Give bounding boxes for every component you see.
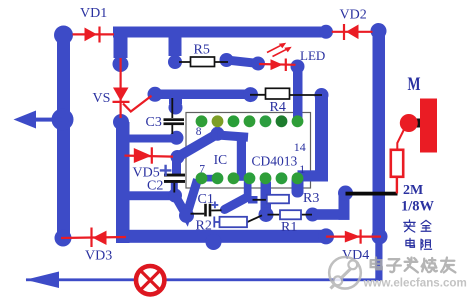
svg-text:R4: R4 <box>270 100 286 115</box>
svg-text:R1: R1 <box>281 220 297 235</box>
svg-text:R5: R5 <box>194 43 210 58</box>
svg-text:www.elecfans.com: www.elecfans.com <box>363 277 467 290</box>
svg-text:M: M <box>408 74 421 95</box>
svg-text:R2: R2 <box>196 219 212 234</box>
svg-text:7: 7 <box>199 163 205 175</box>
svg-text:R3: R3 <box>303 191 319 206</box>
svg-text:C3: C3 <box>146 115 162 130</box>
svg-text:C1: C1 <box>198 192 214 207</box>
svg-text:8: 8 <box>196 126 202 138</box>
svg-text:LED: LED <box>300 48 325 63</box>
svg-text:VD1: VD1 <box>80 6 107 21</box>
svg-text:2M: 2M <box>403 183 423 198</box>
svg-text:CD4013: CD4013 <box>252 153 298 168</box>
svg-text:VD2: VD2 <box>340 8 367 23</box>
svg-text:14: 14 <box>294 140 306 154</box>
svg-text:VD3: VD3 <box>85 249 112 264</box>
svg-text:C2: C2 <box>147 178 163 193</box>
svg-text:1: 1 <box>299 162 305 176</box>
svg-text:1/8W: 1/8W <box>401 199 435 215</box>
svg-text:VS: VS <box>93 91 111 106</box>
svg-text:IC: IC <box>214 152 228 167</box>
